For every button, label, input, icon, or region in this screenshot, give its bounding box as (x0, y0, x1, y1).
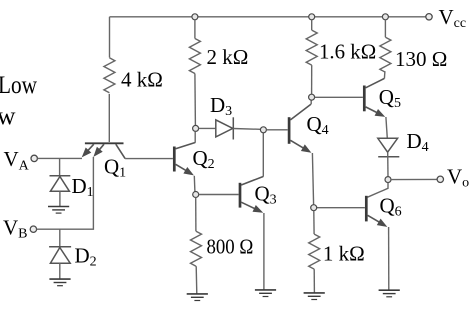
wire: node to Q3 base (199, 194, 239, 196)
diode D1 (50, 176, 71, 192)
terminal Vcc (426, 14, 432, 20)
svg-text:Q2: Q2 (193, 146, 215, 172)
svg-text:w: w (0, 103, 16, 130)
wire: node to Q5 base (315, 96, 363, 98)
wire: Q5 emitter to D4 (386, 117, 387, 138)
transistor Q3 (240, 177, 263, 213)
svg-text:1 kΩ: 1 kΩ (323, 242, 365, 266)
wire: Q3 emitter to ground (263, 213, 265, 290)
diode D4 (378, 138, 400, 156)
diode D3 (216, 117, 234, 139)
wire: rail to 2 k resistor (194, 20, 196, 39)
svg-text:Q6: Q6 (380, 193, 402, 219)
svg-text:D2: D2 (75, 244, 97, 270)
node: output junction (385, 177, 391, 183)
svg-text:Q1: Q1 (104, 155, 126, 181)
wire: 1.6 k resistor to node (311, 65, 313, 94)
ground (D2) (49, 279, 70, 286)
diode D2 (49, 247, 71, 264)
svg-text:Q5: Q5 (379, 85, 401, 111)
node: rail junction above 130 ohm resistor (382, 14, 388, 20)
ground (Q6 emitter) (379, 290, 400, 297)
transistor Q2 (174, 131, 195, 175)
resistor 2 k (189, 39, 200, 74)
transistor Q1 (multi-emitter input) (82, 143, 125, 158)
resistor 130 ohm (380, 37, 391, 72)
wire: node to Q4 base (266, 129, 287, 131)
wire: VA line to D1 (59, 158, 61, 175)
transistor Q5 (364, 79, 385, 117)
wire: D3 cathode to node (233, 128, 260, 131)
wire: Q2 emitter to node (193, 176, 196, 192)
wire: D1 to ground (59, 191, 61, 206)
node: Q6 base / 1 k junction (311, 205, 317, 211)
wire: 2 k resistor to node (194, 74, 197, 126)
wire: node to 800 ohm resistor (195, 198, 197, 232)
wire: 800 ohm to ground (195, 266, 198, 294)
svg-text:800 Ω: 800 Ω (207, 235, 254, 259)
svg-text:D4: D4 (407, 129, 429, 155)
wire: Q4 emitter to Q6 base node (312, 153, 313, 205)
resistor 1 k (309, 234, 320, 269)
wire: 1 k to ground (313, 269, 315, 293)
svg-text:VA: VA (4, 147, 30, 173)
wire: 4 k resistor to Q1 base (108, 94, 110, 142)
ground (Q3 emitter) (255, 290, 276, 297)
terminal VA (31, 155, 37, 161)
wire: rail to 1.6 k resistor (311, 20, 313, 30)
svg-text:Vo: Vo (447, 164, 469, 190)
wire: Q3 collector to D3 node (262, 133, 264, 177)
wire: VA input line (37, 157, 82, 159)
wire: node to D3 anode (199, 127, 216, 129)
ground (1 k) (304, 293, 325, 300)
wire: rail to 4 k resistor (109, 17, 111, 58)
terminal Vo (437, 176, 443, 182)
svg-text:Low: Low (0, 72, 37, 99)
ground (D1) (48, 207, 69, 214)
wire: rail to 130 ohm resistor (384, 20, 386, 37)
svg-text:D3: D3 (210, 93, 232, 119)
transistor Q6 (366, 196, 387, 227)
node: D3 / Q3 collector / Q4 base junction (260, 127, 266, 133)
wire: output node to Q6 collector (368, 183, 389, 198)
transistor Q4 (289, 100, 311, 152)
wire: Q6 base line (317, 207, 365, 209)
terminal VB (30, 226, 36, 232)
svg-text:2 kΩ: 2 kΩ (207, 45, 249, 69)
svg-text:Vcc: Vcc (439, 5, 467, 31)
svg-text:VB: VB (3, 215, 28, 241)
wire: Q1 collector to Q2 base (125, 158, 173, 160)
svg-text:130 Ω: 130 Ω (395, 47, 447, 71)
wire: Q5 collector to 130 ohm (383, 71, 386, 78)
wire: D2 to ground (59, 263, 61, 279)
wire: VB input line (37, 157, 94, 229)
svg-text:D1: D1 (72, 174, 94, 200)
wire: Q6 emitter to ground (388, 227, 390, 290)
node: Q2 emitter / Q3 base / 800 ohm junction (193, 192, 199, 198)
svg-text:Q4: Q4 (307, 112, 329, 138)
resistor 4 k (104, 58, 115, 93)
node: rail junction above 2 k resistor (192, 14, 198, 20)
wire: output node to Vo terminal (391, 178, 437, 180)
svg-text:1.6 kΩ: 1.6 kΩ (319, 40, 376, 64)
svg-text:4 kΩ: 4 kΩ (121, 68, 163, 92)
wire: D4 to output node (387, 152, 389, 176)
resistor 800 ohm (191, 231, 202, 266)
node: Q2 base / D3 anode junction (193, 125, 199, 131)
wire: Vcc top rail (110, 16, 426, 18)
wire: VB line to D2 (59, 229, 61, 247)
node: Q4 collector / Q5 base junction (309, 94, 315, 100)
ground (800 ohm) (187, 294, 208, 301)
svg-text:Q3: Q3 (255, 182, 277, 208)
node: rail junction above 1.6 k resistor (309, 14, 315, 20)
wire: node to 1 k resistor (313, 211, 315, 234)
resistor 1.6 k (306, 30, 317, 65)
